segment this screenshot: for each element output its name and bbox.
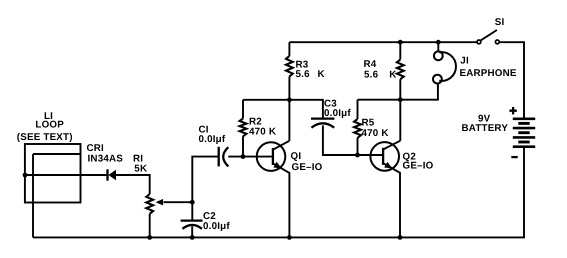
node: R2 bottom on Q1 base wire [241, 154, 246, 159]
capacitor C1 curved plate [223, 147, 228, 166]
wire: C1 left lead down to C2 [192, 157, 218, 220]
wire: R4 leads / Q2 collector vertical [399, 42, 401, 141]
R1 wiper arrowhead [156, 199, 164, 206]
svg-text:K: K [318, 69, 325, 80]
node: Q1 emitter on bottom rail [287, 235, 292, 240]
wire: J1 top lead [437, 42, 439, 51]
svg-text:BATTERY: BATTERY [462, 123, 509, 134]
svg-text:(SEE TEXT): (SEE TEXT) [17, 132, 73, 143]
wire: R1 bottom lead to bottom rail [149, 214, 151, 238]
resistor R4 5.6K body [397, 60, 404, 80]
node: C2 on bottom rail [190, 235, 195, 240]
wire: C1 to Q1 base [228, 156, 273, 158]
svg-text:GE–IO: GE–IO [292, 162, 323, 173]
battery B1 9V plates [513, 118, 535, 121]
Q1 collector diagonal [273, 141, 290, 150]
node: Q1 collector junction [287, 97, 292, 102]
svg-text:5K: 5K [134, 163, 147, 174]
wire: Q1 collector node horizontal (R2 to C3) [243, 100, 323, 118]
battery minus sign [511, 156, 517, 158]
wire: Q2 collector node horizontal (R5 to J1) [358, 84, 438, 100]
wire: top rail left (R3 top to S1) [289, 41, 476, 43]
diode CR1 1N34AS arrow [108, 170, 116, 180]
battery plus sign [509, 107, 516, 114]
node: Q2 collector junction [398, 97, 403, 102]
svg-text:0.0Iμf: 0.0Iμf [203, 221, 230, 232]
resistor R3 5.6K body [286, 56, 293, 77]
wire: R3 leads / Q1 collector vertical [288, 42, 290, 141]
resistor R1 5K body [146, 194, 153, 214]
transistor Q1 GE-10 circle [257, 142, 286, 171]
Q2 emitter with arrow [383, 163, 400, 237]
diode CR1 1N34AS cathode bar [106, 169, 108, 180]
resistor R2 470K body [240, 119, 247, 137]
wire: R1 wiper to C1/C2 column [164, 201, 193, 203]
svg-text:IN34AS: IN34AS [88, 153, 124, 164]
node: wiper junction [190, 200, 195, 205]
wire: top rail right + battery positive lead [499, 42, 524, 119]
capacitor C3 flat plate [311, 117, 334, 119]
wire: C3 bottom to Q2 base [323, 125, 383, 155]
node: Q2 emitter on bottom rail [398, 235, 403, 240]
node: loop tap junction [23, 173, 28, 178]
jack J1 earphone bottom contact [433, 75, 442, 84]
capacitor C2 curved plate [182, 225, 202, 229]
transistor Q2 GE-10 circle [370, 142, 399, 171]
svg-text:JI: JI [460, 55, 469, 66]
svg-text:0.0Iμf: 0.0Iμf [324, 108, 351, 119]
capacitor C2 flat plate [181, 219, 203, 221]
Q1 emitter with arrow [273, 163, 290, 237]
node: R4 top on rail [398, 40, 403, 45]
wire: R2 top lead [242, 100, 244, 157]
node: J1 on top rail [436, 40, 441, 45]
wire: C2 bottom lead [191, 226, 193, 237]
jack J1 plug arc [439, 52, 456, 81]
inductor L1 loop antenna inner turn top [33, 153, 81, 155]
svg-text:5.6: 5.6 [296, 69, 311, 80]
svg-text:SI: SI [495, 17, 505, 28]
svg-text:LOOP: LOOP [35, 119, 64, 130]
switch S1 right contact [495, 40, 499, 44]
wire: diode CR1 to potentiometer R1 [116, 175, 150, 194]
wire: battery negative lead + bottom rail [33, 147, 524, 238]
svg-text:K: K [389, 70, 396, 81]
wire: R5 leads [357, 100, 359, 155]
node: R5 bottom on Q2 base wire [355, 153, 360, 158]
Q2 base bar [382, 148, 384, 165]
svg-text:0.0Iμf: 0.0Iμf [199, 134, 226, 145]
switch S1 lever [481, 30, 497, 40]
Q2 collector diagonal [383, 141, 400, 150]
capacitor C3 curved plate [311, 123, 334, 127]
node: R1 on bottom rail [147, 235, 152, 240]
inductor L1 loop antenna outer turn [25, 144, 81, 203]
svg-text:470 K: 470 K [362, 128, 389, 139]
wire: loop inner turn lead to bottom rail [32, 154, 34, 237]
resistor R5 470K body [354, 119, 361, 138]
capacitor C1 flat plate [218, 147, 220, 167]
svg-text:470 K: 470 K [249, 126, 276, 137]
svg-text:QI: QI [291, 151, 302, 162]
jack J1 earphone top contact [434, 51, 443, 60]
switch S1 left contact [477, 40, 481, 44]
wire: loop tap to diode CR1 [25, 174, 106, 176]
Q1 base bar [272, 148, 274, 165]
svg-text:5.6: 5.6 [364, 70, 379, 81]
svg-text:EARPHONE: EARPHONE [460, 68, 517, 79]
svg-text:GE–IO: GE–IO [403, 161, 434, 172]
